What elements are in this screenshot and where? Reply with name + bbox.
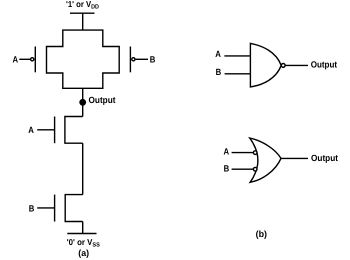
gate bar PMOS B (129, 47, 131, 73)
node B label (NMOS) (29, 203, 35, 213)
svg-text:B: B (216, 67, 222, 77)
caption (b) (256, 229, 267, 239)
svg-text:Output: Output (311, 59, 337, 69)
node A label (NMOS) (28, 125, 34, 135)
node VDD label (66, 0, 100, 11)
wire N2 to VSS (82, 222, 84, 234)
power rail VDD (70, 12, 95, 14)
transistor N2 channel (65, 195, 83, 222)
wire N1 to N2 (82, 143, 84, 194)
inversion bubble NAND output (281, 64, 285, 68)
svg-text:A: A (28, 125, 34, 135)
node A label (OR) (224, 147, 230, 157)
node Output label (NAND) (311, 59, 337, 69)
gate bar NMOS B (54, 195, 56, 222)
wire B input OR (232, 168, 254, 170)
wire VDD to sources (82, 13, 84, 30)
node Output label (89, 95, 116, 105)
gate U1 NAND body (250, 43, 281, 87)
node Output label (OR) (311, 153, 338, 163)
wire A lead (NMOS) (37, 129, 54, 131)
transistor N1 channel (65, 117, 83, 144)
wire A lead (19, 58, 30, 60)
svg-text:'1' or VDD: '1' or VDD (66, 0, 100, 11)
wire NAND output (285, 64, 308, 66)
svg-text:(b): (b) (256, 229, 267, 239)
gate U2 OR body (250, 138, 281, 182)
svg-text:Output: Output (89, 95, 116, 105)
svg-text:A: A (13, 54, 19, 64)
inversion bubble PMOS A (31, 58, 34, 61)
node VSS label (67, 237, 100, 249)
wire B lead (136, 58, 148, 60)
svg-text:A: A (215, 49, 221, 59)
wire A input NAND (224, 55, 250, 57)
node A label (NAND) (215, 49, 221, 59)
svg-text:B: B (150, 54, 156, 64)
node B label (PMOS) (150, 54, 156, 64)
wire output vertical (82, 88, 84, 116)
gate bar NMOS A (54, 117, 56, 144)
inversion bubble OR input A (253, 151, 257, 155)
svg-text:'0' or VSS: '0' or VSS (67, 237, 100, 249)
wire A input OR (232, 152, 254, 154)
power rail VSS (67, 233, 96, 235)
wire B input NAND (225, 73, 251, 75)
node A label (PMOS) (13, 54, 19, 64)
inversion bubble PMOS B (132, 58, 135, 61)
svg-text:B: B (224, 164, 230, 174)
svg-text:A: A (224, 147, 230, 157)
caption (a) (78, 248, 89, 258)
svg-text:(a): (a) (78, 248, 89, 258)
gate bar PMOS A (34, 47, 36, 73)
inversion bubble OR input B (253, 167, 257, 171)
wire OR output (281, 157, 308, 159)
junction dot Output (80, 100, 85, 105)
svg-text:B: B (29, 203, 35, 213)
transistors P1 P2 parallel channel loop (47, 30, 120, 88)
node B label (OR) (224, 164, 230, 174)
wire B lead (NMOS) (37, 207, 54, 209)
node B label (NAND) (216, 67, 222, 77)
svg-text:Output: Output (311, 153, 338, 163)
